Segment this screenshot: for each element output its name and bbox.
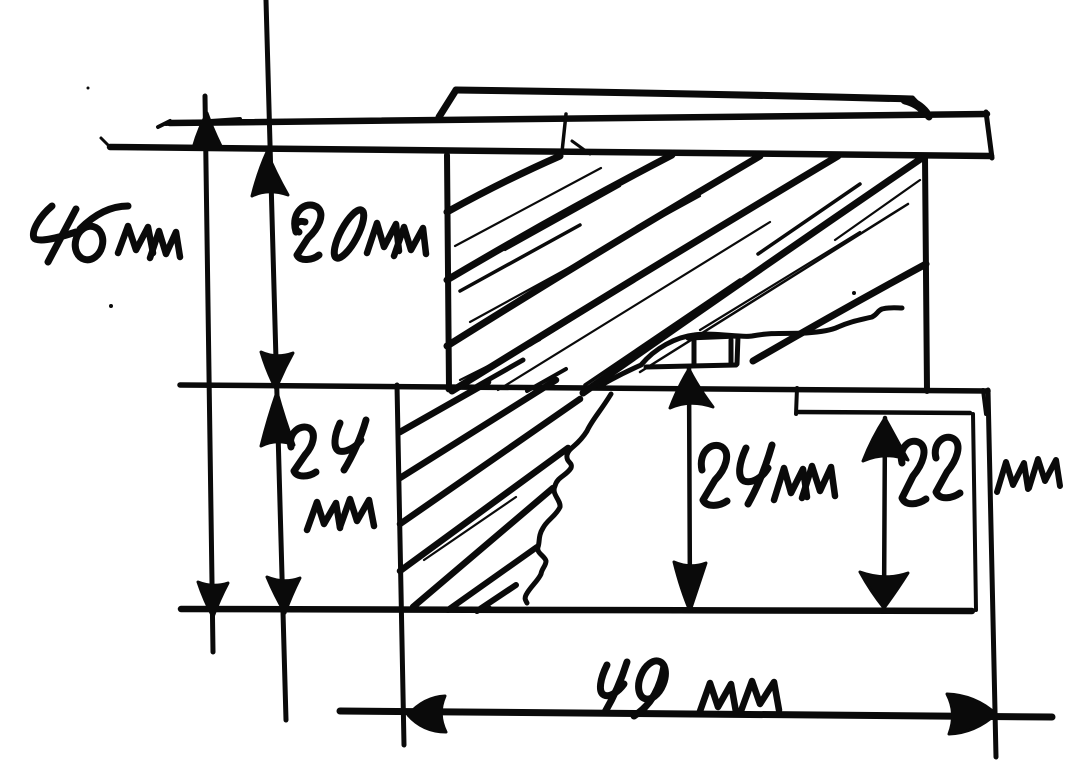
upper block thin hatch t7 — [505, 186, 620, 250]
label 24L: digit 2 — [291, 427, 316, 476]
dimension 24M bottom arrow — [674, 562, 706, 611]
upper block thin hatch t8 — [700, 232, 860, 330]
clip top bar — [688, 336, 738, 364]
upper block companion stroke c1 — [460, 225, 580, 291]
dimension 24M vertical line — [689, 368, 690, 611]
lower block hatch B4 — [400, 448, 568, 571]
bottom horizontal line — [181, 609, 972, 611]
label 46mm: digit 6 — [72, 206, 128, 263]
lower block hatch B2 — [400, 380, 556, 478]
plate bottom left flick — [101, 138, 110, 147]
dimension 20mm bottom arrow — [261, 352, 293, 389]
dimension 46mm top arrow — [193, 113, 221, 148]
upper block thin hatch t4 — [640, 204, 908, 372]
middle horizontal line — [180, 385, 988, 391]
upper block hatch T2 — [447, 155, 672, 280]
upper block hatch T4 — [452, 156, 838, 391]
plate right edge — [986, 112, 992, 158]
plate seam smudge — [572, 141, 590, 154]
label 24L: letters mm — [307, 499, 374, 530]
plate top edge — [170, 114, 987, 123]
dimension 22mm vertical line — [884, 418, 885, 608]
upper block short stroke s1 — [472, 360, 523, 389]
dimension 46mm vertical line — [205, 96, 213, 652]
upper block hatch T6 — [753, 264, 926, 361]
bar bottom edge — [797, 412, 970, 413]
upper block companion stroke c4 — [758, 184, 860, 254]
label 24M: digit 2 — [701, 445, 727, 505]
label 46mm: digit 4 — [33, 206, 76, 262]
lower block hatch B5 — [413, 488, 553, 607]
dimension 20mm top arrow — [252, 152, 288, 196]
label 20mm: digit 2 — [295, 205, 321, 260]
lower block thin hatch b1 — [420, 383, 487, 420]
upper block thin hatch t1 — [455, 168, 601, 246]
label 22mm: first digit 2 — [901, 441, 926, 504]
label 22mm: second digit 2 — [935, 437, 960, 498]
label 49mm: digit 4 — [600, 662, 627, 712]
dimension 22mm top arrow — [863, 418, 908, 461]
torn edge of lower block — [525, 394, 611, 603]
dimension 20/24 vertical line — [266, 0, 286, 720]
speck top left — [87, 87, 90, 90]
speck left — [109, 304, 113, 308]
lower block hatch B7 — [477, 585, 516, 611]
label 22mm: letters mm — [997, 459, 1060, 492]
label 24M: digit 4 — [740, 445, 772, 504]
dimension 46mm bottom arrow — [198, 582, 228, 617]
clip bottom bar — [646, 365, 736, 367]
dimension 24L top arrow — [261, 392, 294, 446]
dimension 49mm left arrow — [408, 696, 446, 732]
label 49mm: letters mm — [699, 681, 779, 714]
right inner vertical — [973, 414, 976, 610]
speck right — [852, 291, 856, 295]
dimension 49mm horizontal line — [340, 711, 1052, 717]
label 24L: digit 4 — [335, 420, 366, 470]
lid top edge — [456, 90, 912, 99]
lower block thin hatch b2 — [424, 497, 516, 560]
lid left slant — [439, 90, 456, 117]
lower block hatch B1 — [400, 382, 488, 432]
upper block thin hatch t6 — [460, 340, 540, 380]
upper block thin hatch t5 — [835, 180, 920, 240]
label 49mm: digit 9 — [633, 657, 670, 716]
label 46mm: letters mm — [118, 226, 180, 258]
upper block thin hatch t2 — [470, 196, 700, 322]
bar right closure — [983, 390, 986, 414]
junction dot bottom line — [486, 606, 493, 613]
label 24M: letters mm — [774, 466, 835, 500]
right vertical extension — [988, 390, 996, 757]
clip middle vertical — [729, 340, 734, 365]
plate seam — [562, 114, 566, 152]
bar step down — [796, 388, 797, 414]
clip left vertical — [692, 340, 697, 365]
upper block right edge — [925, 157, 927, 391]
upper block hatch T3 — [447, 156, 760, 346]
lower block hatch B6 — [448, 547, 537, 610]
upper block hatch T5 — [583, 158, 922, 393]
dimension 24M top arrow — [670, 369, 713, 408]
dimension 49mm right arrow — [947, 694, 996, 734]
upper block companion stroke c3 — [585, 280, 740, 385]
label 20mm: digit 0 — [329, 206, 369, 262]
plate left hook — [158, 121, 170, 127]
dimension 46mm top tick — [166, 119, 240, 124]
label 20mm: letters mm — [367, 223, 426, 256]
dimension 24L bottom arrow — [267, 577, 300, 613]
lower block left edge extension — [397, 385, 404, 745]
lid right slant — [912, 99, 929, 117]
upper block companion stroke c2 — [530, 252, 680, 345]
plate bottom edge — [110, 147, 991, 156]
junction dot — [446, 386, 453, 393]
lower block hatch B3 — [400, 399, 580, 524]
grain wavy line — [600, 308, 902, 386]
upper block hatch T1 — [447, 156, 560, 212]
lid right corner blob — [905, 100, 926, 113]
upper block left edge — [447, 155, 449, 389]
dimension 22mm bottom arrow — [860, 572, 908, 608]
upper block short stroke s2 — [527, 369, 566, 391]
upper block thin hatch t3 — [498, 222, 770, 390]
